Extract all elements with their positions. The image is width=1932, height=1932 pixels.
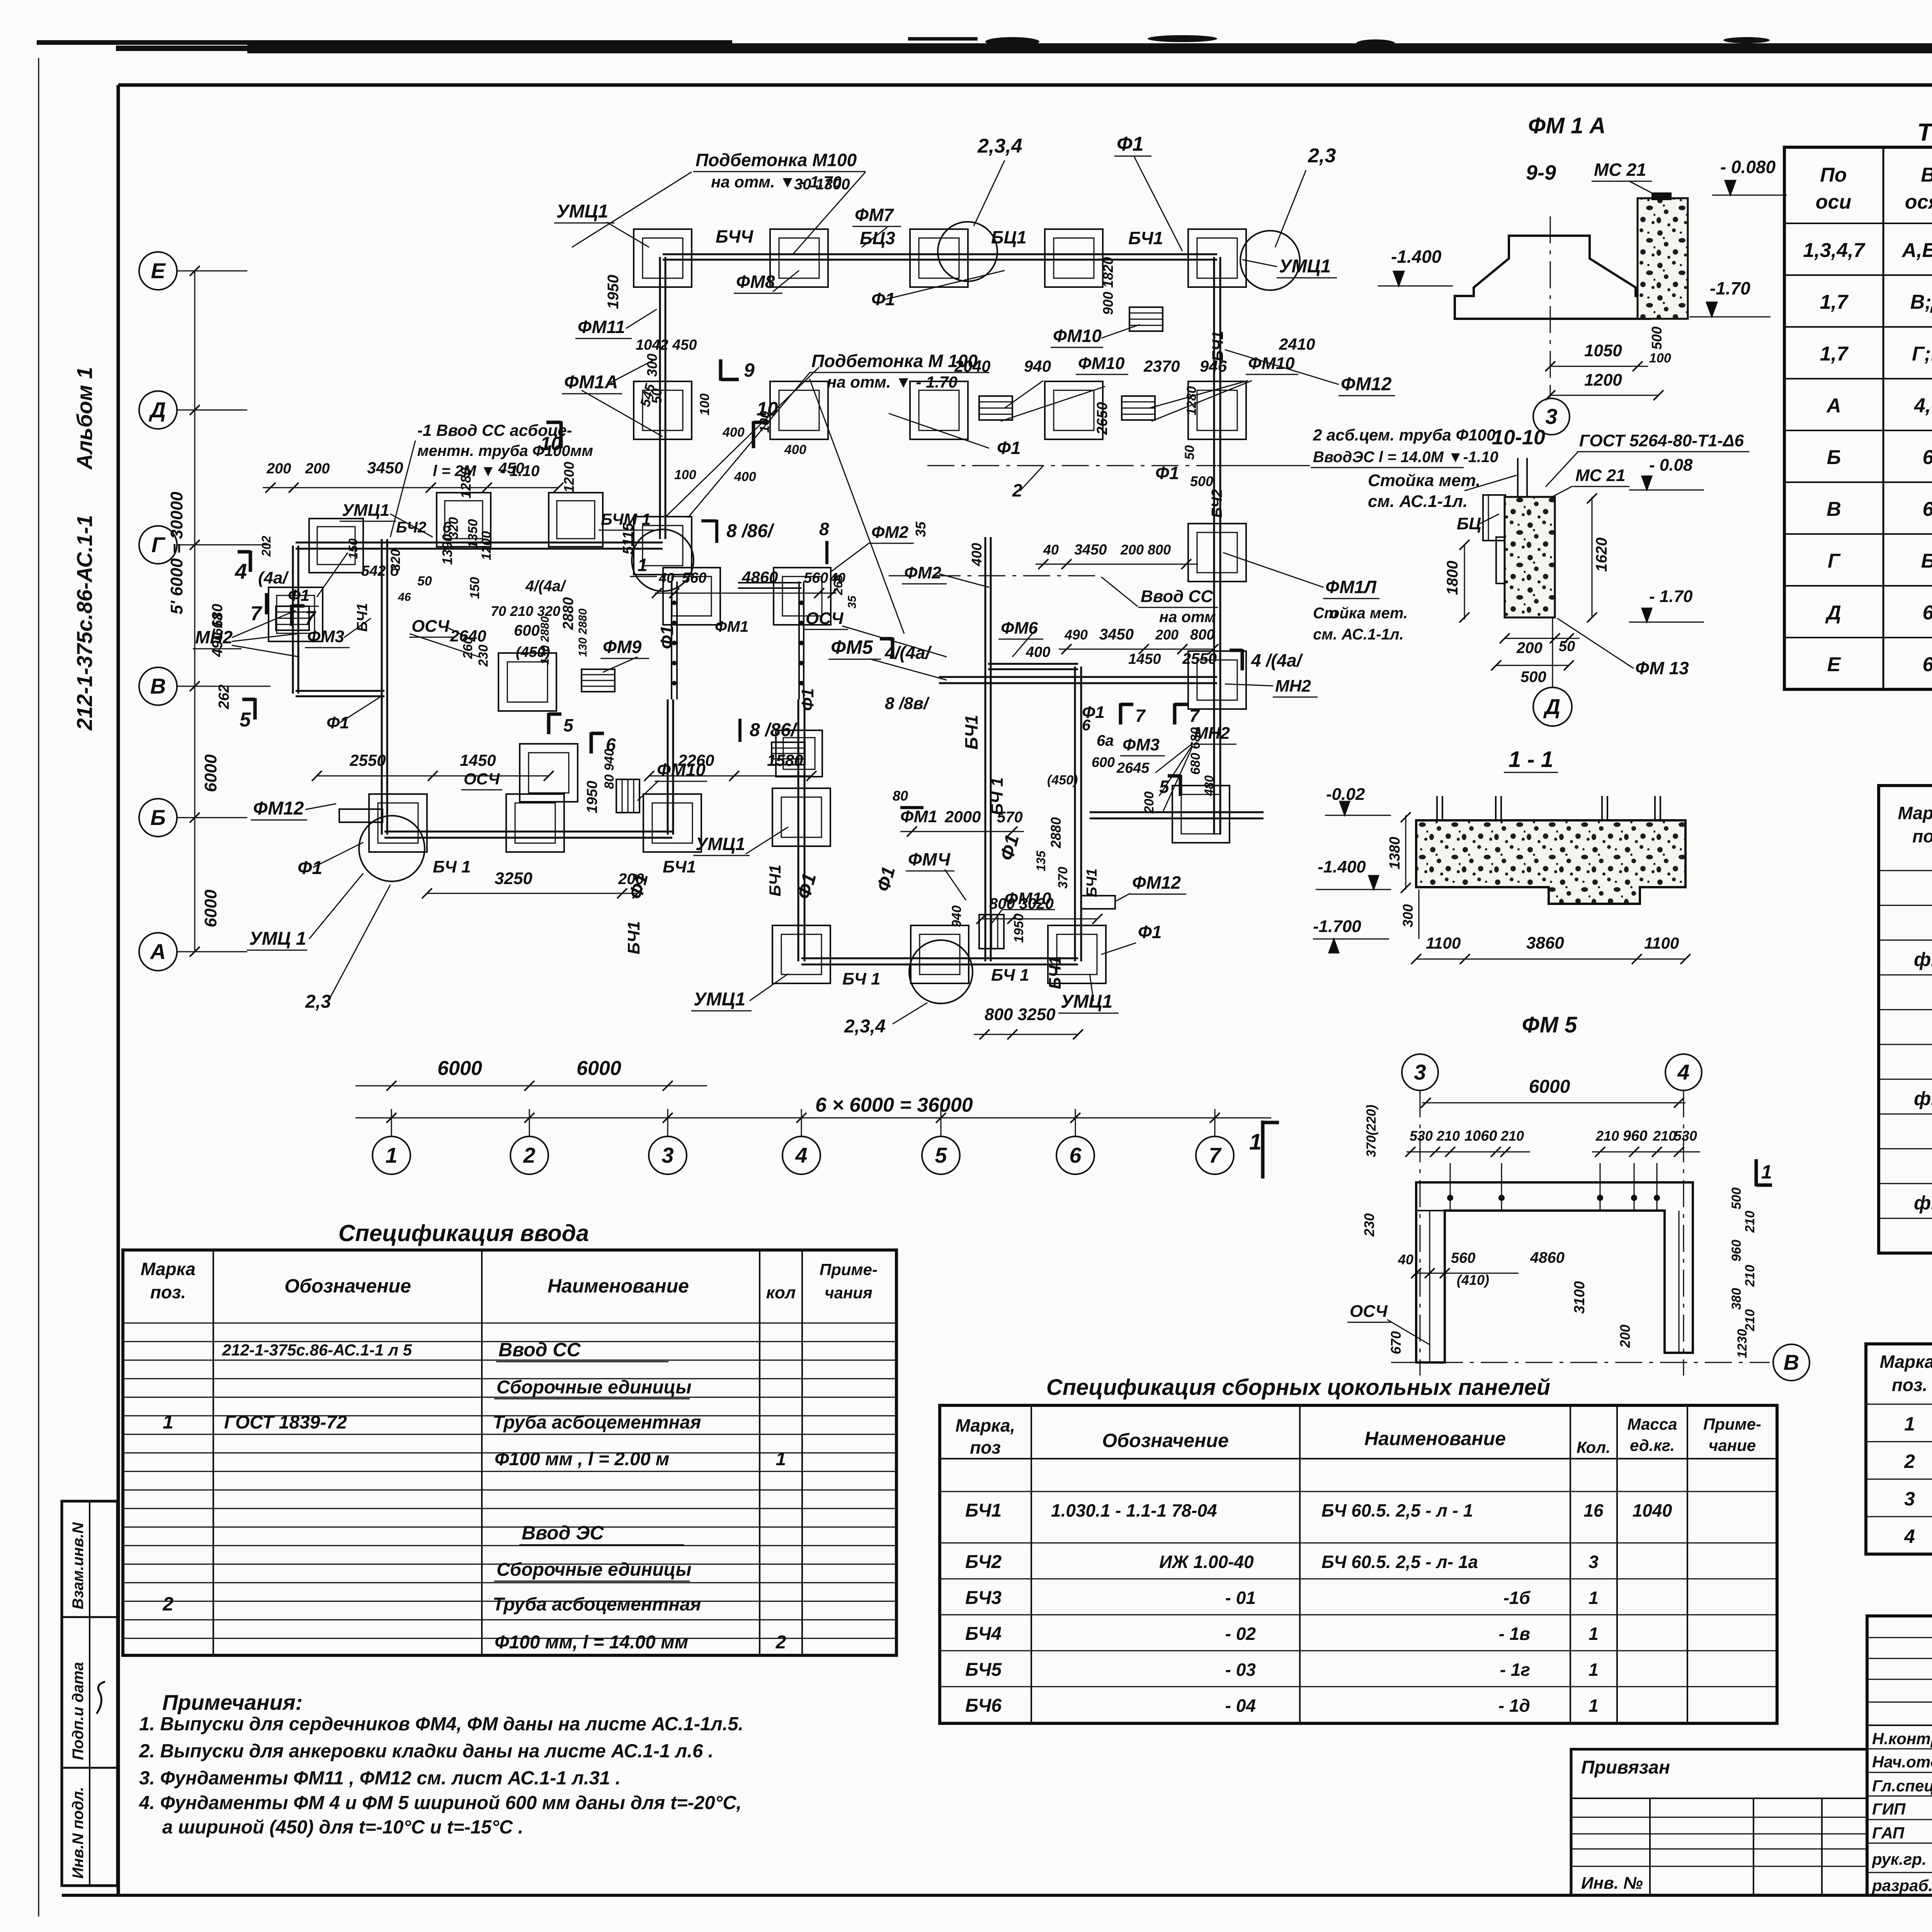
svg-text:ФМ1А: ФМ1А [564, 372, 618, 393]
svg-text:500: 500 [1649, 327, 1665, 350]
svg-text:80 940: 80 940 [602, 749, 617, 789]
svg-text:-1.400: -1.400 [1391, 247, 1442, 267]
svg-text:УМЦ1: УМЦ1 [696, 834, 745, 854]
svg-text:300: 300 [644, 354, 660, 377]
svg-text:530: 530 [1674, 1128, 1697, 1144]
svg-text:200: 200 [305, 461, 330, 477]
svg-text:Кол.: Кол. [1577, 1438, 1611, 1456]
svg-text:Е: Е [151, 259, 166, 283]
svg-text:Взам.инв.N: Взам.инв.N [70, 1522, 87, 1609]
svg-text:В: В [150, 674, 166, 698]
svg-text:УМЦ1: УМЦ1 [694, 989, 745, 1010]
svg-text:Наименование: Наименование [1364, 1428, 1506, 1449]
svg-text:Сборочные единицы: Сборочные единицы [497, 1560, 692, 1580]
svg-text:200 800: 200 800 [1120, 542, 1171, 558]
svg-text:2,3: 2,3 [305, 992, 331, 1012]
left block pads [269, 587, 323, 641]
detail FM5 guide verticals [1450, 1163, 1451, 1211]
signature squiggle [97, 1682, 105, 1714]
svg-text:1050: 1050 [1584, 341, 1622, 360]
svg-text:Г;Е: Г;Е [1912, 343, 1932, 365]
svg-text:3450: 3450 [1099, 626, 1134, 643]
svg-text:10: 10 [540, 433, 562, 454]
svg-text:на отм. ▼ - 1.70: на отм. ▼ - 1.70 [827, 373, 957, 391]
svg-text:А,Б,Г: А,Б,Г [1901, 239, 1932, 262]
svg-text:В;Д: В;Д [1910, 291, 1932, 313]
svg-text:1200: 1200 [479, 531, 494, 560]
svg-text:5' 6000 = 30000: 5' 6000 = 30000 [167, 492, 186, 614]
svg-text:600: 600 [514, 622, 540, 639]
svg-text:см. АС.1-1л.: см. АС.1-1л. [1313, 626, 1404, 643]
svg-text:ФМЧ: ФМЧ [908, 849, 951, 869]
svg-text:БЧ5: БЧ5 [965, 1660, 1002, 1680]
svg-text:БЧ1: БЧ1 [961, 715, 981, 750]
wall x1735 lower [667, 699, 669, 835]
svg-text:Ввод ЭС: Ввод ЭС [522, 1522, 604, 1544]
plan circle 2,3 top right [1240, 231, 1300, 290]
svg-text:2: 2 [523, 1143, 535, 1167]
svg-text:осях: осях [1905, 191, 1932, 213]
svg-text:6: 6 [1923, 653, 1932, 676]
svg-text:1450: 1450 [460, 751, 496, 769]
svg-text:1200: 1200 [561, 462, 577, 493]
detail FM5 axis circles [1402, 1054, 1438, 1090]
plan circle 2,3,4 top [938, 222, 997, 281]
svg-text:Ф1: Ф1 [997, 438, 1021, 458]
svg-text:ОСЧ: ОСЧ [412, 617, 450, 636]
svg-text:ФМ6: ФМ6 [1001, 619, 1038, 638]
svg-text:ФМ12: ФМ12 [253, 798, 304, 819]
detail FM5 top dim row [1406, 1151, 1530, 1153]
drawing frame [118, 83, 1932, 87]
pads fm2 row [663, 568, 720, 625]
svg-text:Гл.спец: Гл.спец [1872, 1777, 1932, 1795]
svg-text:Ф1: Ф1 [1138, 922, 1162, 942]
svg-text:1. Выпуски для сердечников ФМ4: 1. Выпуски для сердечников ФМ4, ФМ даны … [139, 1714, 743, 1735]
svg-text:2,3,4: 2,3,4 [977, 135, 1022, 157]
plan circle UMC1 bottom left [359, 816, 425, 881]
svg-text:560: 560 [682, 570, 706, 586]
svg-text:210: 210 [1743, 1265, 1757, 1287]
svg-text:БЧ1: БЧ1 [624, 921, 643, 954]
svg-text:9: 9 [744, 359, 755, 381]
svg-text:а шириной (450) для t=-10°: а шириной (450) для t=-10°C и t=-15°C . [162, 1817, 523, 1838]
svg-text:1: 1 [1588, 1588, 1599, 1608]
svg-text:400: 400 [734, 469, 756, 484]
svg-text:8 /86/: 8 /86/ [726, 521, 775, 541]
svg-text:680 680: 680 680 [1188, 727, 1203, 775]
svg-text:370: 370 [1056, 867, 1070, 889]
svg-text:7: 7 [250, 602, 262, 625]
svg-text:5115: 5115 [620, 522, 636, 554]
svg-text:1: 1 [1761, 1161, 1772, 1183]
svg-text:Нач.отд.: Нач.отд. [1872, 1753, 1932, 1771]
svg-text:6: 6 [1923, 446, 1932, 469]
wall left block w [292, 546, 294, 694]
privyazan box [1571, 1749, 1867, 1895]
svg-text:200: 200 [1142, 791, 1156, 814]
svg-text:30 1300: 30 1300 [794, 176, 850, 193]
svg-text:БЧ1: БЧ1 [766, 865, 784, 896]
svg-text:БЧ3: БЧ3 [965, 1588, 1002, 1608]
svg-text:Д: Д [1543, 694, 1560, 719]
svg-text:2 асб.цем. труба Ф100: 2 асб.цем. труба Ф100 [1313, 426, 1495, 444]
svg-text:1: 1 [1588, 1624, 1599, 1644]
detail 9-9 axis circle 3 [1550, 387, 1551, 397]
detail 9-9 wall panel concrete [1638, 198, 1688, 319]
section mark 1 bottom [1261, 1121, 1265, 1179]
extra leaders [665, 367, 819, 518]
svg-text:УМЦ1: УМЦ1 [1061, 992, 1112, 1012]
svg-text:4 /(4а/: 4 /(4а/ [1251, 650, 1303, 670]
svg-text:Примечания:: Примечания: [162, 1690, 303, 1714]
pads G axis [634, 517, 692, 575]
svg-text:200: 200 [1155, 627, 1179, 643]
pad row y2160 [369, 794, 427, 852]
detail 9-9 foundation profile [1455, 236, 1650, 319]
svg-text:4860: 4860 [742, 568, 778, 586]
svg-text:2: 2 [1904, 1451, 1915, 1472]
detail 10-10 bottom dims [1505, 638, 1580, 639]
svg-text:5: 5 [935, 1143, 947, 1167]
svg-text:l = 2М ▼ - 1.10: l = 2М ▼ - 1.10 [433, 463, 539, 480]
svg-text:ФМ2: ФМ2 [871, 523, 909, 542]
svg-text:670: 670 [1388, 1331, 1404, 1354]
svg-text:Ф1: Ф1 [657, 626, 677, 650]
svg-text:В: В [1784, 1350, 1799, 1374]
svg-text:1280: 1280 [1184, 386, 1199, 415]
detail 10-10 stojka [1517, 458, 1519, 497]
svg-text:- 03: - 03 [1225, 1660, 1256, 1680]
svg-text:Д: Д [1825, 602, 1841, 624]
svg-text:100: 100 [674, 468, 696, 482]
svg-text:Инв.N подл.: Инв.N подл. [70, 1787, 87, 1879]
svg-text:3450: 3450 [1074, 542, 1107, 558]
svg-text:3100: 3100 [1571, 1281, 1588, 1314]
mid pads [498, 653, 556, 711]
svg-text:4: 4 [1677, 1060, 1689, 1084]
svg-text:80: 80 [893, 788, 908, 804]
svg-text:поз: поз [970, 1437, 1001, 1458]
svg-text:Г: Г [1828, 550, 1841, 572]
svg-text:БЦ: БЦ [1457, 514, 1481, 533]
svg-text:кол: кол [766, 1283, 796, 1302]
svg-text:150: 150 [346, 538, 360, 559]
svg-text:БЧ1: БЧ1 [1128, 228, 1163, 248]
svg-text:3: 3 [1414, 1060, 1426, 1084]
svg-text:4: 4 [1904, 1526, 1915, 1547]
svg-text:2370: 2370 [1143, 357, 1180, 375]
svg-text:- 02: - 02 [1225, 1624, 1256, 1644]
svg-text:-1б: -1б [1503, 1588, 1531, 1608]
wall x2790 [1074, 667, 1076, 961]
svg-text:100: 100 [1649, 351, 1671, 366]
svg-text:разраб.: разраб. [1872, 1876, 1932, 1895]
svg-text:Ф1: Ф1 [1117, 133, 1144, 155]
svg-text:Н.контр.: Н.контр. [1872, 1730, 1932, 1748]
svg-text:БЧ2: БЧ2 [1209, 489, 1225, 518]
bottom axis circles 1-7 [372, 1136, 410, 1174]
svg-text:По: По [1820, 164, 1847, 186]
detail FM5 axis circle V [1773, 1344, 1810, 1381]
svg-text:ФМ 13: ФМ 13 [1635, 658, 1689, 678]
svg-text:ФМ2: ФМ2 [904, 563, 942, 582]
detail FM5 axis dashdots [1420, 1090, 1421, 1376]
svg-text:600: 600 [1092, 754, 1115, 770]
svg-text:ФМ3: ФМ3 [307, 627, 344, 646]
svg-text:2: 2 [776, 1632, 786, 1653]
svg-text:ф1: ф1 [1914, 1192, 1932, 1214]
svg-text:1,7: 1,7 [1820, 343, 1849, 365]
svg-text:940: 940 [1024, 357, 1051, 375]
svg-text:Наименование: Наименование [548, 1275, 689, 1297]
svg-text:3: 3 [1545, 404, 1557, 429]
FM5 dotted monolith dots [672, 600, 677, 605]
FM12 stub right [1081, 896, 1115, 909]
svg-text:5: 5 [240, 709, 251, 731]
svg-text:ФМ1: ФМ1 [715, 618, 748, 635]
svg-text:230: 230 [1361, 1213, 1377, 1237]
svg-text:2000: 2000 [944, 808, 981, 826]
svg-text:Масса: Масса [1628, 1415, 1677, 1433]
svg-text:ФМ1: ФМ1 [900, 807, 937, 826]
svg-text:800 3250: 800 3250 [985, 1005, 1056, 1024]
svg-text:ИЖ 1.00-40: ИЖ 1.00-40 [1159, 1552, 1254, 1572]
svg-text:320: 320 [388, 549, 403, 571]
svg-text:210: 210 [1500, 1128, 1524, 1144]
detail 9-9 dims [1550, 366, 1648, 367]
detail 10-10 dim 1800 [1464, 545, 1465, 619]
svg-text:Ф100 мм, l = 14.00 мм: Ф100 мм, l = 14.00 мм [495, 1632, 688, 1653]
svg-text:- 01: - 01 [1225, 1588, 1256, 1608]
svg-text:2040: 2040 [954, 357, 990, 375]
svg-text:6: 6 [1069, 1143, 1082, 1167]
svg-text:1390: 1390 [439, 534, 455, 565]
svg-text:212-1-375с.86-АС.1-1 л 5: 212-1-375с.86-АС.1-1 л 5 [222, 1341, 412, 1359]
svg-text:6000: 6000 [1529, 1077, 1570, 1097]
svg-text:1: 1 [385, 1143, 397, 1167]
svg-text:МС 21: МС 21 [1594, 160, 1646, 180]
svg-text:1350: 1350 [466, 519, 480, 548]
FM12 left stub [339, 809, 383, 822]
svg-text:чание: чание [1709, 1436, 1756, 1454]
svg-text:2: 2 [162, 1593, 173, 1615]
svg-text:35: 35 [913, 521, 929, 537]
svg-text:400: 400 [784, 442, 806, 457]
svg-text:ГИП: ГИП [1872, 1800, 1906, 1818]
svg-text:В: В [1921, 164, 1932, 186]
svg-text:1: 1 [1904, 1413, 1915, 1435]
svg-text:поз.: поз. [1892, 1375, 1927, 1395]
svg-text:500: 500 [1520, 668, 1546, 685]
guide line from podbetonka to pads [410, 634, 479, 657]
svg-text:6000: 6000 [201, 754, 220, 792]
svg-text:2550: 2550 [349, 751, 386, 769]
svg-text:3860: 3860 [1526, 934, 1564, 952]
svg-text:1800: 1800 [1444, 561, 1461, 595]
svg-text:40: 40 [1398, 1252, 1413, 1267]
svg-text:БЧ1: БЧ1 [1209, 331, 1226, 361]
svg-text:940: 940 [949, 905, 964, 927]
svg-text:ОСЧ: ОСЧ [806, 609, 844, 628]
wall V axis right part [939, 676, 1217, 678]
svg-text:4: 4 [795, 1143, 807, 1167]
svg-text:ФМ 1 А: ФМ 1 А [1528, 113, 1606, 138]
svg-text:БЧЧ: БЧЧ [716, 226, 754, 247]
wall x2074 axis4 [798, 699, 799, 961]
svg-text:УМЦ1: УМЦ1 [556, 201, 608, 222]
svg-text:Марка,: Марка, [1898, 803, 1932, 823]
svg-text:Спецификация ввода: Спецификация ввода [338, 1220, 589, 1246]
wall x995 [381, 539, 383, 835]
axis circle B [139, 799, 177, 837]
svg-text:9-9: 9-9 [1526, 161, 1556, 184]
detail FM5 section 1 mark [1755, 1159, 1758, 1186]
svg-text:490: 490 [1064, 627, 1088, 643]
svg-text:(4а/: (4а/ [258, 568, 289, 587]
detail 1-1 strip concrete [1416, 820, 1685, 904]
svg-text:БЧ 60.5. 2,5 - л- 1а: БЧ 60.5. 2,5 - л- 1а [1321, 1552, 1478, 1572]
svg-text:3: 3 [662, 1143, 673, 1167]
svg-text:500: 500 [1190, 473, 1213, 489]
svg-text:8 /8в/: 8 /8в/ [885, 694, 930, 713]
svg-text:1,3,4,7: 1,3,4,7 [1803, 239, 1865, 262]
svg-text:50: 50 [1182, 445, 1197, 460]
svg-text:поз.: поз. [150, 1282, 186, 1302]
svg-text:300: 300 [1400, 904, 1416, 927]
svg-text:- 0.08: - 0.08 [1649, 456, 1693, 474]
bottom dim line partial [355, 1085, 707, 1087]
svg-text:оси: оси [1816, 191, 1851, 213]
scan smudges top [985, 37, 1039, 46]
svg-text:2645: 2645 [1116, 760, 1150, 776]
svg-text:Ф1: Ф1 [798, 688, 817, 711]
svg-text:БЧ4: БЧ4 [965, 1624, 1002, 1644]
svg-text:А: А [1826, 395, 1841, 417]
svg-text:3250: 3250 [495, 869, 532, 888]
pads D axis row [634, 381, 692, 439]
svg-text:40: 40 [658, 570, 674, 586]
svg-text:на отм: на отм [1159, 609, 1216, 626]
svg-text:210: 210 [1743, 1309, 1757, 1332]
pads right wall [1188, 524, 1246, 582]
detail 10-10 column concrete [1505, 497, 1555, 617]
svg-text:5: 5 [1159, 777, 1170, 797]
svg-text:- 0.080: - 0.080 [1720, 157, 1776, 177]
svg-text:5: 5 [563, 715, 574, 735]
svg-text:1: 1 [638, 555, 648, 575]
svg-text:ОСЧ: ОСЧ [1350, 1302, 1388, 1321]
svg-text:6: 6 [1923, 602, 1932, 624]
svg-text:Альбом 1: Альбом 1 [72, 367, 97, 470]
svg-text:1060: 1060 [1464, 1128, 1497, 1144]
svg-text:БЧ1: БЧ1 [663, 857, 696, 876]
spec vvoda table [213, 1250, 214, 1655]
svg-text:46: 46 [398, 591, 411, 604]
svg-text:БЧ 1: БЧ 1 [988, 777, 1007, 815]
svg-text:210: 210 [1436, 1128, 1460, 1144]
svg-text:800: 800 [1190, 627, 1214, 643]
svg-text:1 - 1: 1 - 1 [1509, 747, 1553, 772]
detail 10-10 axis circle D [1552, 617, 1553, 687]
svg-text:Марка: Марка [141, 1259, 196, 1279]
svg-text:Б: Б [150, 805, 166, 830]
svg-text:Е: Е [1827, 653, 1841, 676]
svg-text:Приме-: Приме- [820, 1260, 878, 1279]
svg-text:Таблица расчетных нагрузок: Таблица расчетных нагрузок по обрезу фун… [1917, 118, 1932, 146]
svg-text:МН2: МН2 [195, 627, 233, 647]
svg-text:-1.70: -1.70 [1710, 278, 1750, 298]
svg-text:4: 4 [235, 559, 247, 583]
svg-text:ед.кг.: ед.кг. [1630, 1436, 1675, 1454]
svg-text:6 × 6000 = 36000: 6 × 6000 = 36000 [815, 1094, 973, 1116]
svg-text:3450: 3450 [367, 459, 403, 477]
svg-text:Марка,: Марка, [956, 1415, 1015, 1435]
svg-text:400: 400 [1026, 644, 1050, 660]
svg-text:3: 3 [1904, 1488, 1915, 1510]
svg-text:210: 210 [1743, 1211, 1757, 1233]
wall MN2 stub [1090, 811, 1264, 813]
svg-text:1950: 1950 [584, 781, 600, 813]
svg-text:Ф1: Ф1 [298, 858, 322, 878]
wall y2160 [384, 831, 672, 833]
svg-text:ГОСТ 5264-80-Т1-Δ6: ГОСТ 5264-80-Т1-Δ6 [1579, 431, 1744, 450]
scan edge artifact top [37, 40, 732, 45]
svg-text:Спецификация сборных цокольн: Спецификация сборных цокольных панелей [1046, 1375, 1550, 1400]
svg-text:Обозначение: Обозначение [1102, 1430, 1229, 1451]
svg-text:40: 40 [1043, 542, 1059, 558]
svg-text:1042 450: 1042 450 [636, 337, 697, 353]
svg-text:6: 6 [1082, 717, 1091, 734]
wall left block bottom stub [296, 690, 384, 692]
svg-text:265: 265 [831, 574, 845, 595]
svg-text:- 1г: - 1г [1500, 1660, 1530, 1680]
svg-text:200: 200 [1617, 1325, 1633, 1348]
svg-text:БЧ1: БЧ1 [1046, 956, 1065, 989]
axis circle D [139, 391, 177, 429]
svg-text:8 /86/: 8 /86/ [750, 720, 798, 740]
svg-text:ментн. труба Ф100мм: ментн. труба Ф100мм [417, 442, 593, 459]
UMC1 circle at G junction [632, 529, 694, 591]
svg-text:1: 1 [1249, 1129, 1262, 1155]
section 7 pair [1119, 703, 1122, 724]
detail 1-1 rebar dowels [1436, 796, 1438, 820]
detail 10-10 dim 1620 [1592, 497, 1593, 617]
svg-text:1100: 1100 [1644, 934, 1679, 952]
title block [1867, 1616, 1932, 1895]
svg-text:370(220): 370(220) [1364, 1105, 1379, 1157]
svg-text:560: 560 [1451, 1250, 1475, 1266]
svg-text:1280: 1280 [458, 468, 474, 498]
svg-text:- 04: - 04 [1225, 1696, 1256, 1716]
svg-text:210: 210 [1653, 1128, 1676, 1144]
svg-text:Ф1: Ф1 [871, 289, 895, 309]
section 9 top [719, 359, 723, 381]
spec basement panels table [1031, 1405, 1032, 1723]
svg-text:БЧ 1: БЧ 1 [433, 857, 471, 876]
svg-text:ФМ9: ФМ9 [603, 637, 642, 657]
hatched pads D row [979, 396, 1012, 420]
svg-text:МН2: МН2 [1275, 677, 1311, 696]
svg-text:ВводЭС l = 14.0М ▼-1.10: ВводЭС l = 14.0М ▼-1.10 [1313, 449, 1498, 466]
dim 40 560 4860 [655, 593, 835, 594]
svg-text:135: 135 [1034, 850, 1048, 871]
svg-text:ГОСТ 1839-72: ГОСТ 1839-72 [224, 1412, 347, 1433]
svg-text:1: 1 [1588, 1660, 1599, 1680]
svg-text:БЧ 1: БЧ 1 [842, 969, 880, 988]
detail 1-1 rot dims [1405, 815, 1406, 889]
svg-text:1040: 1040 [1633, 1500, 1672, 1520]
